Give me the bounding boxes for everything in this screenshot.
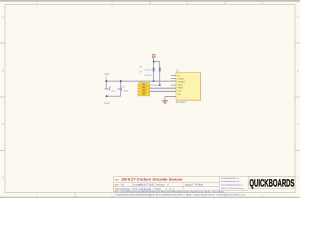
- svg-text:www.quickboards.cz e-: www.quickboards.cz e-: [221, 180, 241, 183]
- svg-text:70 5406: 70 5406: [194, 184, 204, 187]
- svg-text:C: C: [2, 123, 4, 126]
- svg-text:A: A: [2, 16, 4, 19]
- svg-text:Sheet: Sheet: [155, 188, 161, 191]
- svg-text:QUICKBOARDS: QUICKBOARDS: [249, 178, 294, 190]
- svg-text:B: B: [297, 70, 299, 73]
- svg-text:10uF: 10uF: [111, 90, 116, 93]
- svg-text:QUICKBOARDS s.r.o.: QUICKBOARDS s.r.o.: [221, 177, 240, 180]
- svg-text:RX/DRx: RX/DRx: [178, 81, 185, 84]
- svg-text:2/27/2021: 2/27/2021: [120, 188, 131, 191]
- svg-text:4.7kOhm: 4.7kOhm: [144, 69, 153, 72]
- svg-text:4.7kOhm: 4.7kOhm: [144, 74, 153, 77]
- svg-text:Revision: Revision: [157, 184, 166, 187]
- svg-text:+420 777 123 456 Czechia: +420 777 123 456 Czechia: [221, 187, 245, 190]
- svg-text:C: C: [297, 123, 299, 126]
- svg-text:S8-K17-2021: S8-K17-2021: [140, 184, 155, 187]
- svg-text:5V0: 5V0: [104, 72, 109, 76]
- svg-text:Regnum: Regnum: [185, 184, 193, 187]
- svg-text:mail: info@quickboards.cz: mail: info@quickboards.cz: [221, 184, 243, 187]
- svg-text:U1: U1: [176, 69, 180, 72]
- svg-text:S8-0053: S8-0053: [176, 101, 186, 104]
- svg-text:C:\Work\Projects\QUICKBOARDS\S: C:\Work\Projects\QUICKBOARDS\SenseAir S8…: [115, 193, 246, 196]
- svg-text:100nF: 100nF: [123, 90, 130, 93]
- svg-text:bCAL: bCAL: [178, 84, 184, 87]
- svg-text:B: B: [2, 70, 4, 73]
- svg-text:S8-K17 Carbon Dioxide Sensor: S8-K17 Carbon Dioxide Sensor: [121, 178, 183, 182]
- svg-text:D: D: [2, 177, 4, 180]
- svg-text:4:26:36 AM: 4:26:36 AM: [139, 188, 151, 191]
- svg-text:PWM: PWM: [178, 87, 183, 90]
- svg-text:A: A: [297, 16, 299, 19]
- svg-text:TX/MT: TX/MT: [178, 78, 185, 81]
- svg-text:C:\Work\Projects\QUICKBOARDS\S: C:\Work\Projects\QUICKBOARDS\SenseAir S8…: [120, 190, 225, 193]
- svg-text:GND: GND: [104, 102, 110, 105]
- svg-text:D: D: [297, 177, 299, 180]
